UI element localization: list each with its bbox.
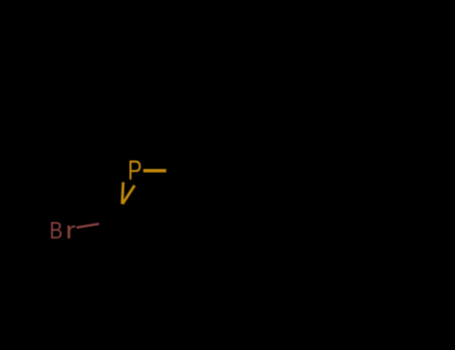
svg-text:P: P — [128, 156, 142, 186]
bond Br-C (half) — [77, 224, 100, 228]
svg-text:r: r — [65, 217, 75, 244]
bond P-CH3 (half, horizontal) — [143, 169, 166, 172]
svg-text:B: B — [49, 217, 62, 244]
bond P=C primary line — [122, 182, 123, 204]
bond P=C secondary line — [123, 185, 135, 204]
